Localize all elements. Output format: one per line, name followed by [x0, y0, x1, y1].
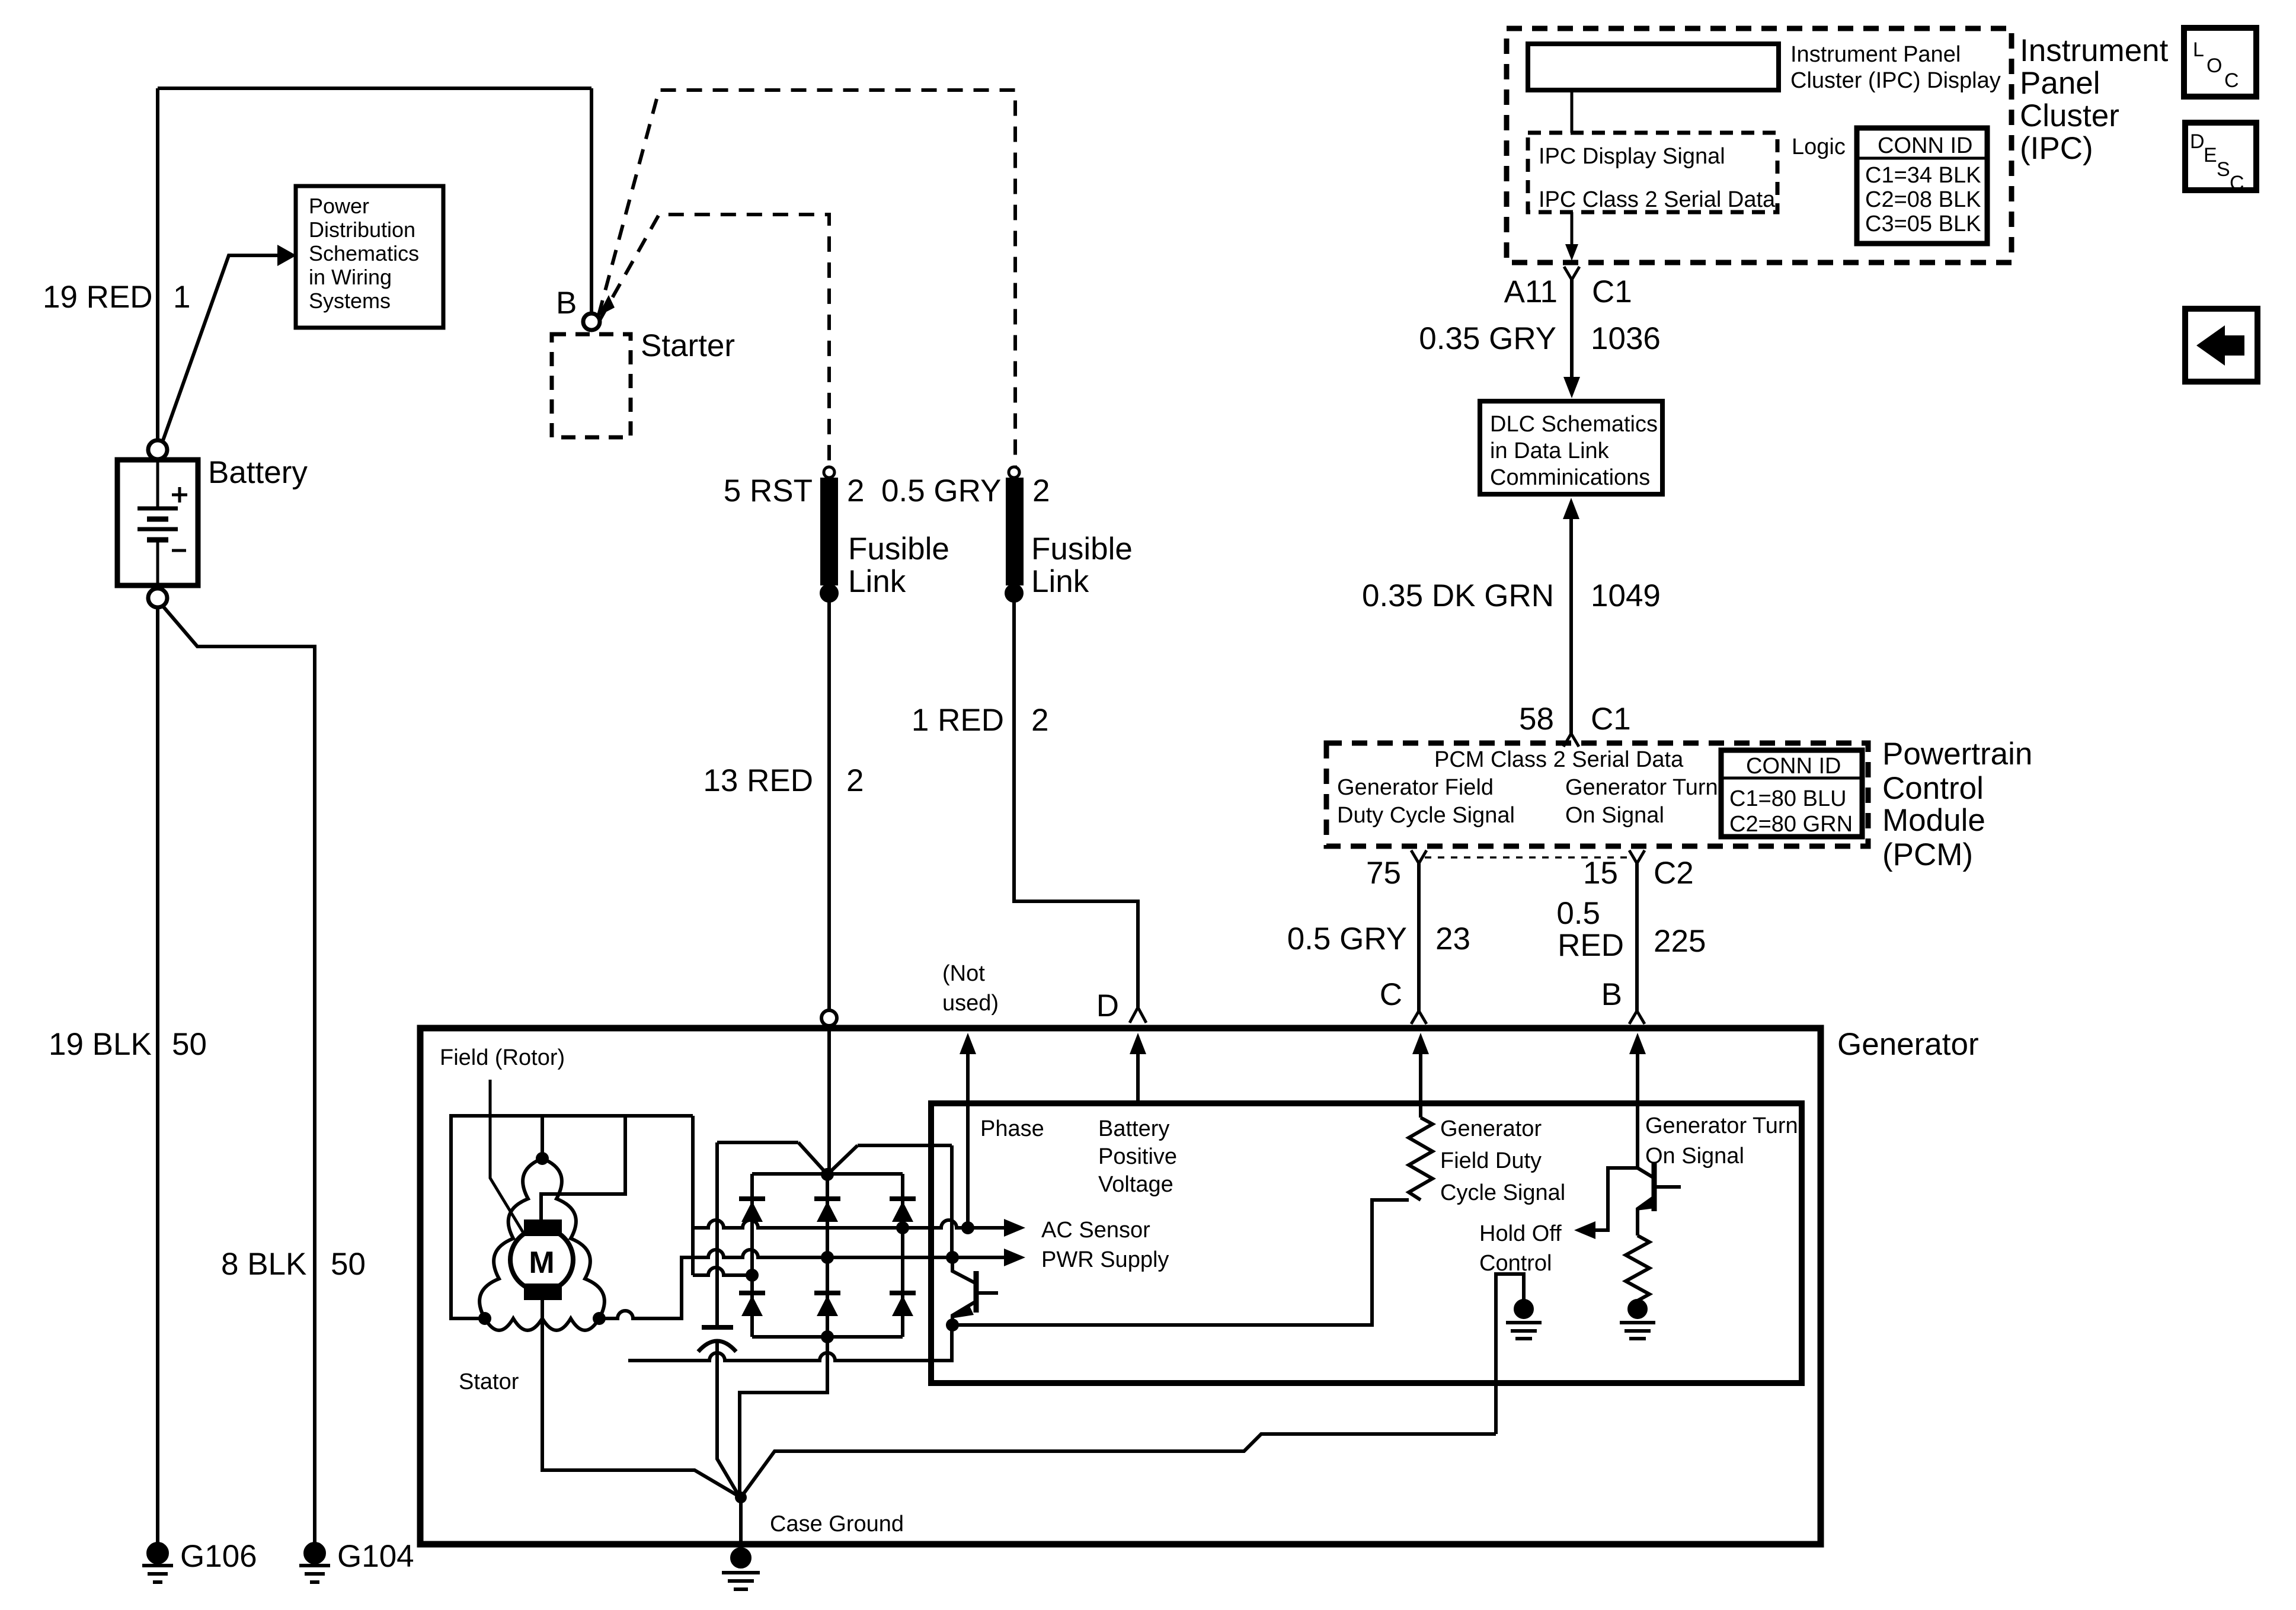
- svg-text:S: S: [2217, 158, 2230, 181]
- svg-text:Systems: Systems: [309, 289, 391, 313]
- svg-text:Control: Control: [1479, 1251, 1552, 1276]
- wire dashed branch to fusible link 1: [600, 215, 829, 467]
- diode D2: [814, 1196, 840, 1201]
- svg-text:Instrument: Instrument: [2020, 33, 2169, 68]
- svg-text:PWR Supply: PWR Supply: [1041, 1247, 1169, 1272]
- svg-text:Generator: Generator: [1440, 1116, 1542, 1141]
- connector pin 58 C1: [1563, 734, 1579, 747]
- svg-text:Phase: Phase: [980, 1116, 1044, 1141]
- svg-text:L: L: [2193, 39, 2204, 61]
- svg-text:On Signal: On Signal: [1645, 1144, 1744, 1169]
- svg-text:D: D: [2190, 130, 2205, 153]
- svg-text:C: C: [1380, 977, 1402, 1012]
- wire 19 BLK to G106: [156, 607, 159, 1544]
- svg-text:A11: A11: [1504, 274, 1558, 309]
- rotor motor M: [510, 1228, 573, 1291]
- svg-text:2: 2: [847, 473, 864, 508]
- svg-text:On Signal: On Signal: [1565, 803, 1664, 828]
- svg-text:Fusible: Fusible: [848, 532, 949, 566]
- svg-text:Comminications: Comminications: [1490, 465, 1650, 490]
- wire 8 BLK branch to G104: [162, 606, 315, 1544]
- svg-text:19 BLK: 19 BLK: [49, 1027, 152, 1062]
- fusible link 2 (0.5 GRY): [1009, 467, 1019, 478]
- ground case ground: [732, 1549, 750, 1567]
- LOC box: [2184, 28, 2256, 97]
- conn id table IPC: [1857, 128, 1987, 244]
- IPC logic (dashed box): [1528, 133, 1777, 212]
- svg-text:Starter: Starter: [641, 328, 735, 363]
- svg-text:C: C: [2224, 69, 2239, 92]
- transistor Q1: [952, 1257, 976, 1283]
- starter (dashed box): [552, 334, 631, 437]
- wire 0.35 DK GRN 1049: [1569, 517, 1573, 734]
- svg-text:2: 2: [846, 763, 864, 798]
- connector pin 15 C2: [1629, 850, 1645, 863]
- svg-text:DLC Schematics: DLC Schematics: [1490, 412, 1658, 437]
- node battery positive terminal: [148, 440, 167, 459]
- diode column 3: [901, 1174, 904, 1337]
- svg-text:2: 2: [1032, 473, 1050, 508]
- node case ground junction: [735, 1491, 747, 1503]
- svg-text:Battery: Battery: [1098, 1116, 1169, 1141]
- wire 13 RED to generator: [827, 600, 831, 1010]
- svg-text:Panel: Panel: [2020, 66, 2100, 101]
- svg-text:RED: RED: [1558, 928, 1624, 963]
- node V junction: [821, 1168, 834, 1181]
- wire 0.5 RED 225 to B: [1635, 863, 1639, 1011]
- wire stator phase 2 / PWR supply: [599, 1250, 952, 1318]
- svg-text:Generator Turn: Generator Turn: [1645, 1113, 1798, 1138]
- node battery negative terminal: [148, 588, 167, 607]
- stator delta winding: [479, 1158, 542, 1318]
- svg-text:Case Ground: Case Ground: [770, 1512, 904, 1537]
- terminal arrow D battery positive voltage: [1130, 1033, 1146, 1054]
- svg-text:Battery: Battery: [208, 455, 308, 490]
- rectifier top bus: [752, 1172, 903, 1176]
- svg-text:M: M: [529, 1246, 554, 1280]
- IPC display: [1528, 44, 1779, 90]
- DLC schematics note box: [1480, 401, 1662, 494]
- svg-text:5 RST: 5 RST: [724, 473, 813, 508]
- wire 1 RED to generator D terminal: [1014, 600, 1138, 1007]
- svg-text:C1=80 BLU: C1=80 BLU: [1729, 786, 1847, 811]
- diode column 1: [750, 1174, 754, 1337]
- wire vertical down to B terminal: [590, 88, 593, 313]
- terminal arrow phase (not used): [960, 1033, 976, 1054]
- svg-text:(Not: (Not: [942, 961, 985, 986]
- wire battery positive to rectifier V junction: [827, 1026, 831, 1174]
- connector pin A11 C1: [1564, 267, 1579, 280]
- svg-text:Generator Turn: Generator Turn: [1565, 775, 1718, 800]
- wire IPC output arrow: [1571, 212, 1574, 249]
- svg-text:2: 2: [1031, 703, 1048, 738]
- svg-text:used): used): [942, 991, 999, 1016]
- wire top horizontal to starter B: [158, 87, 591, 90]
- svg-text:CONN ID: CONN ID: [1878, 133, 1972, 158]
- instrument panel cluster IPC (dashed box): [1507, 28, 2012, 263]
- wire stator phase 1 / AC sensor: [693, 1220, 1008, 1228]
- DESC box: [2185, 123, 2256, 190]
- diode D5: [814, 1291, 840, 1295]
- wire hold off control: [1591, 1168, 1638, 1230]
- svg-text:Duty Cycle Signal: Duty Cycle Signal: [1337, 803, 1515, 828]
- svg-text:in Wiring: in Wiring: [309, 265, 392, 289]
- resistor R1 field duty cycle: [1409, 1118, 1432, 1200]
- svg-text:C1=34 BLK: C1=34 BLK: [1865, 163, 1981, 188]
- wire regulator return: [946, 1318, 959, 1331]
- svg-text:1036: 1036: [1591, 321, 1661, 356]
- svg-text:Power: Power: [309, 194, 369, 218]
- svg-text:0.5 GRY: 0.5 GRY: [1287, 921, 1407, 956]
- wire 0.35 GRY 1036: [1570, 280, 1574, 379]
- svg-text:0.35 DK GRN: 0.35 DK GRN: [1362, 578, 1554, 613]
- svg-text:Instrument Panel: Instrument Panel: [1790, 42, 1961, 67]
- wire dashed branch to fusible link 2: [599, 90, 1015, 467]
- fusible link 1 (5 RST): [824, 467, 834, 478]
- capacitor C1: [715, 1142, 719, 1327]
- svg-text:15: 15: [1583, 856, 1618, 891]
- wire 0.5 GRY 23 to C: [1417, 863, 1421, 1011]
- svg-text:Link: Link: [1031, 564, 1089, 599]
- ground hold off: [1515, 1301, 1532, 1317]
- svg-text:(IPC): (IPC): [2020, 131, 2093, 166]
- svg-text:CONN ID: CONN ID: [1746, 754, 1841, 779]
- svg-text:C1: C1: [1592, 274, 1632, 309]
- svg-text:Control: Control: [1882, 771, 1984, 806]
- resistor R2: [1626, 1235, 1649, 1301]
- svg-text:G104: G104: [337, 1539, 414, 1574]
- generator box: [420, 1028, 1821, 1544]
- svg-text:D: D: [1096, 988, 1119, 1023]
- svg-text:50: 50: [172, 1027, 207, 1062]
- svg-text:Distribution: Distribution: [309, 217, 415, 242]
- svg-text:B: B: [556, 286, 577, 321]
- svg-text:Cycle Signal: Cycle Signal: [1440, 1180, 1565, 1205]
- svg-text:Fusible: Fusible: [1031, 532, 1133, 566]
- diode D6: [890, 1291, 916, 1295]
- svg-text:B: B: [1601, 977, 1622, 1012]
- svg-text:C2=80 GRN: C2=80 GRN: [1729, 812, 1853, 837]
- svg-text:1 RED: 1 RED: [912, 703, 1004, 738]
- svg-text:Stator: Stator: [459, 1369, 519, 1394]
- diode D1: [739, 1196, 765, 1201]
- svg-text:1: 1: [173, 280, 190, 315]
- svg-text:Field (Rotor): Field (Rotor): [440, 1045, 565, 1070]
- rectifier bottom bus: [752, 1335, 903, 1339]
- wire stator phase 3: [693, 1267, 752, 1275]
- svg-text:Generator: Generator: [1837, 1027, 1979, 1062]
- wire leader to power distribution note: [162, 255, 277, 442]
- svg-text:IPC Display Signal: IPC Display Signal: [1539, 144, 1725, 169]
- svg-text:Cluster (IPC) Display: Cluster (IPC) Display: [1790, 68, 2001, 93]
- svg-text:Powertrain: Powertrain: [1882, 737, 2032, 772]
- ground G104: [305, 1544, 324, 1563]
- ground G106: [148, 1544, 167, 1563]
- svg-text:Field Duty: Field Duty: [1440, 1148, 1542, 1173]
- svg-text:C: C: [2230, 172, 2244, 194]
- regulator inner box: [931, 1103, 1802, 1383]
- diode D4: [739, 1291, 765, 1295]
- ground Q2 emitter: [1629, 1301, 1646, 1317]
- svg-text:Generator Field: Generator Field: [1337, 775, 1494, 800]
- powertrain control module PCM (dashed box): [1326, 743, 1868, 846]
- wire stator wrap: [451, 1116, 693, 1318]
- svg-text:Voltage: Voltage: [1098, 1172, 1173, 1197]
- svg-text:0.5 GRY: 0.5 GRY: [881, 473, 1001, 508]
- svg-text:Module: Module: [1882, 803, 1985, 838]
- wire rotor brush to case ground: [542, 1300, 741, 1497]
- svg-text:IPC Class 2 Serial Data: IPC Class 2 Serial Data: [1539, 187, 1776, 212]
- svg-text:19 RED: 19 RED: [43, 280, 153, 315]
- svg-text:C3=05 BLK: C3=05 BLK: [1865, 212, 1981, 236]
- wire case ground bus: [741, 1434, 1496, 1497]
- node starter B terminal: [583, 313, 600, 330]
- battery B1: [117, 460, 198, 585]
- back arrow box: [2185, 309, 2257, 382]
- transistor Q2 turn on: [1638, 1168, 1654, 1178]
- connector pin 75: [1411, 850, 1427, 863]
- svg-text:23: 23: [1435, 921, 1470, 956]
- terminal arrow B turn on: [1629, 1033, 1646, 1054]
- svg-text:PCM Class 2 Serial Data: PCM Class 2 Serial Data: [1434, 747, 1684, 772]
- wire display to logic: [1571, 90, 1574, 133]
- svg-text:Positive: Positive: [1098, 1144, 1177, 1169]
- svg-text:8 BLK: 8 BLK: [221, 1247, 306, 1282]
- svg-text:C2=08 BLK: C2=08 BLK: [1865, 187, 1981, 212]
- svg-text:(PCM): (PCM): [1882, 837, 1973, 872]
- diode D3: [890, 1196, 916, 1201]
- svg-text:75: 75: [1366, 856, 1401, 891]
- wire dashed link between pins: [1425, 856, 1631, 859]
- svg-text:Logic: Logic: [1792, 135, 1846, 159]
- conn id table PCM: [1721, 750, 1862, 837]
- svg-text:58: 58: [1519, 702, 1554, 737]
- leader field rotor: [490, 1080, 524, 1234]
- svg-text:C2: C2: [1654, 856, 1694, 891]
- wire 19 RED battery positive vertical: [156, 88, 159, 440]
- svg-text:Hold Off: Hold Off: [1479, 1221, 1562, 1246]
- terminal arrow C field duty: [1412, 1033, 1429, 1054]
- svg-text:G106: G106: [180, 1539, 257, 1574]
- svg-text:1049: 1049: [1591, 578, 1661, 613]
- wire rotor brush to supply: [541, 1116, 625, 1219]
- diode column 2: [740, 1174, 827, 1494]
- svg-text:AC Sensor: AC Sensor: [1041, 1218, 1150, 1243]
- svg-text:225: 225: [1654, 924, 1706, 959]
- svg-text:50: 50: [331, 1247, 366, 1282]
- svg-text:E: E: [2204, 144, 2217, 167]
- svg-text:O: O: [2207, 55, 2222, 77]
- node generator BAT terminal: [821, 1010, 837, 1026]
- svg-text:0.5: 0.5: [1556, 896, 1600, 931]
- svg-text:C1: C1: [1591, 702, 1631, 737]
- svg-text:0.35 GRY: 0.35 GRY: [1419, 321, 1556, 356]
- svg-text:13 RED: 13 RED: [703, 763, 813, 798]
- svg-text:in Data Link: in Data Link: [1490, 438, 1610, 463]
- svg-text:Link: Link: [848, 564, 906, 599]
- power distribution note box: [296, 186, 443, 328]
- connector pin D: [1130, 1007, 1146, 1023]
- svg-text:Schematics: Schematics: [309, 241, 419, 265]
- svg-text:Cluster: Cluster: [2020, 98, 2119, 133]
